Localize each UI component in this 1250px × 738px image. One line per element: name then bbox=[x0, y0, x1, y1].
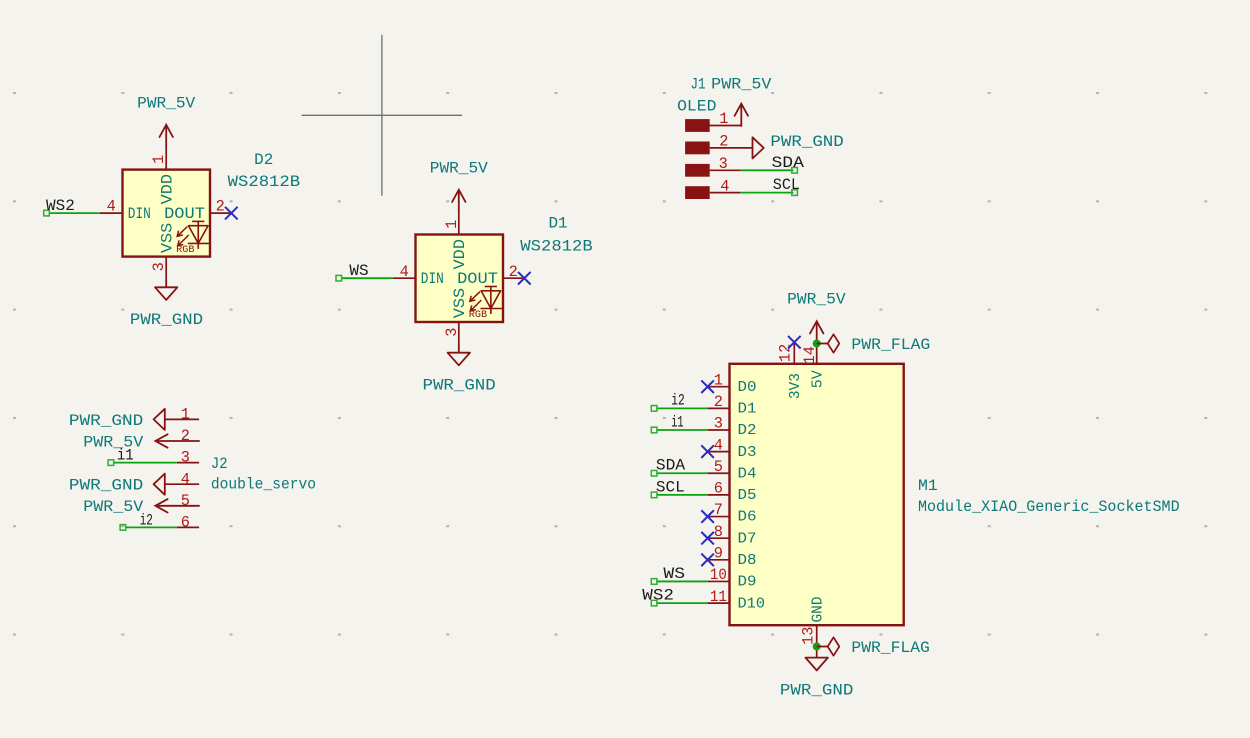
D2 LED vertical lead bbox=[197, 221, 199, 249]
svg-text:D7: D7 bbox=[738, 531, 757, 547]
no-connect at D2 DOUT bbox=[225, 207, 238, 220]
J1 pin 1 bbox=[710, 124, 742, 127]
J1 pad 3 bbox=[685, 164, 710, 177]
J1 pad 1 bbox=[685, 119, 710, 132]
D2 pin 2 (DOUT) bbox=[210, 212, 231, 214]
svg-text:6: 6 bbox=[181, 514, 190, 532]
svg-text:PWR_FLAG: PWR_FLAG bbox=[851, 639, 929, 657]
svg-text:RGB: RGB bbox=[176, 244, 194, 255]
svg-text:4: 4 bbox=[720, 177, 729, 195]
svg-text:8: 8 bbox=[714, 523, 723, 541]
power flag PWR_FLAG top bbox=[828, 334, 840, 352]
M1 pin 7 (D6) bbox=[708, 516, 730, 518]
wire end square (i2 at M1) bbox=[651, 406, 657, 412]
power PWR_5V at M1 bbox=[810, 321, 823, 343]
svg-text:DIN: DIN bbox=[128, 205, 151, 223]
no-connect at M1 pin 7 bbox=[701, 510, 714, 523]
svg-text:WS2: WS2 bbox=[642, 587, 674, 605]
wire end square (SCL at M1) bbox=[651, 492, 657, 498]
no-connect at M1 pin 12 bbox=[788, 336, 801, 349]
M1 pin 11 (D10) bbox=[708, 602, 730, 604]
junction at M1 5V pin bbox=[813, 340, 821, 348]
svg-text:Module_XIAO_Generic_SocketSMD: Module_XIAO_Generic_SocketSMD bbox=[918, 498, 1180, 516]
svg-text:4: 4 bbox=[714, 436, 723, 454]
svg-text:PWR_5V: PWR_5V bbox=[711, 76, 772, 94]
wire net SCL at M1 bbox=[657, 494, 708, 496]
wire end square (i2) bbox=[120, 525, 126, 531]
no-connect at M1 pin 9 bbox=[701, 554, 714, 567]
no-connect at M1 pin 1 bbox=[701, 380, 714, 393]
svg-text:WS: WS bbox=[663, 565, 685, 583]
svg-text:1: 1 bbox=[719, 110, 728, 128]
svg-text:RGB: RGB bbox=[469, 309, 487, 320]
D1 LED arrow 1 bbox=[470, 292, 480, 302]
svg-text:WS2812B: WS2812B bbox=[520, 237, 592, 255]
svg-text:PWR_GND: PWR_GND bbox=[69, 477, 143, 495]
module M1 body bbox=[730, 364, 904, 625]
svg-text:D8: D8 bbox=[738, 553, 757, 569]
wire net i1 at M1 bbox=[657, 429, 708, 431]
wire end square (SCL) bbox=[792, 190, 798, 196]
M1 pin 2 (D1) bbox=[708, 407, 730, 409]
J1 pin 3 bbox=[710, 169, 741, 171]
svg-text:i2: i2 bbox=[671, 392, 685, 410]
D1 pin 1 (VDD) bbox=[458, 212, 460, 235]
svg-text:2: 2 bbox=[714, 393, 723, 411]
no-connect at M1 pin 8 bbox=[701, 532, 714, 545]
svg-text:SCL: SCL bbox=[773, 176, 800, 194]
no-connect at D1 DOUT bbox=[518, 272, 531, 285]
wire net i1 at J2 bbox=[114, 462, 177, 464]
svg-text:i1: i1 bbox=[671, 413, 683, 431]
svg-text:PWR_5V: PWR_5V bbox=[83, 498, 144, 516]
power PWR_GND at J2 pin 4 (rotated) bbox=[154, 474, 165, 495]
svg-text:14: 14 bbox=[801, 346, 819, 364]
wire net WS2 to D2 DIN bbox=[49, 212, 100, 214]
svg-text:D2: D2 bbox=[254, 151, 273, 169]
D2 pin 1 (VDD) bbox=[165, 147, 167, 170]
svg-text:7: 7 bbox=[714, 501, 723, 519]
svg-text:WS: WS bbox=[349, 262, 368, 280]
M1 pin 9 (D8) bbox=[708, 559, 730, 561]
J2 pin 5 with power PWR_5V (rotated) bbox=[155, 499, 199, 512]
M1 pin 8 (D7) bbox=[708, 537, 730, 539]
J1 pin 4 bbox=[710, 192, 741, 194]
D2 LED anode tick bbox=[192, 220, 204, 222]
svg-text:3: 3 bbox=[714, 415, 723, 433]
J2 pin 6 bbox=[177, 526, 199, 528]
wire net WS at M1 bbox=[657, 580, 708, 582]
svg-text:VDD: VDD bbox=[451, 239, 469, 270]
D2 LED cathode bar bbox=[188, 242, 210, 244]
svg-text:2: 2 bbox=[719, 133, 728, 151]
cursor crosshair horizontal bbox=[302, 114, 462, 116]
power PWR_5V at D2 bbox=[160, 125, 173, 147]
svg-text:D3: D3 bbox=[738, 445, 757, 461]
svg-text:3: 3 bbox=[181, 449, 190, 467]
J2 pin 1 bbox=[165, 418, 199, 420]
D1 LED anode tick bbox=[485, 286, 497, 288]
D2 pin 4 (DIN) bbox=[100, 212, 123, 214]
cursor crosshair vertical bbox=[381, 35, 383, 196]
svg-text:10: 10 bbox=[710, 566, 727, 584]
J1 pad 2 bbox=[685, 142, 710, 155]
svg-text:4: 4 bbox=[181, 470, 190, 488]
junction at M1 GND pin bbox=[813, 643, 821, 651]
wire end square (i1) bbox=[108, 460, 114, 466]
svg-text:DOUT: DOUT bbox=[457, 270, 498, 288]
svg-text:PWR_GND: PWR_GND bbox=[780, 682, 854, 700]
wire net i2 at J2 bbox=[126, 526, 177, 528]
svg-text:D10: D10 bbox=[738, 596, 766, 612]
svg-text:double_servo: double_servo bbox=[211, 476, 316, 494]
wire end square (i1 at M1) bbox=[651, 427, 657, 433]
svg-text:2: 2 bbox=[216, 198, 225, 216]
svg-text:6: 6 bbox=[714, 480, 723, 498]
M1 pin 5 (D4) bbox=[708, 472, 730, 474]
svg-text:1: 1 bbox=[150, 155, 168, 164]
M1 pin 1 (D0) bbox=[708, 386, 730, 388]
D2 LED arrow 2 bbox=[178, 235, 189, 246]
wire end square (SDA) bbox=[792, 168, 798, 174]
svg-text:SDA: SDA bbox=[772, 154, 805, 172]
svg-text:OLED: OLED bbox=[677, 98, 716, 116]
svg-text:D0: D0 bbox=[738, 380, 757, 396]
svg-text:5: 5 bbox=[181, 492, 190, 510]
svg-text:PWR_GND: PWR_GND bbox=[770, 133, 843, 151]
svg-text:GND: GND bbox=[810, 596, 826, 622]
svg-text:M1: M1 bbox=[918, 477, 938, 495]
power flag PWR_FLAG bottom bbox=[828, 637, 840, 655]
M1 pin 13 (GND) bbox=[816, 625, 818, 657]
J1 pin 2 bbox=[710, 147, 753, 149]
D1 LED arrow 2 bbox=[470, 300, 481, 311]
svg-text:WS2: WS2 bbox=[46, 197, 75, 215]
svg-text:J1: J1 bbox=[691, 76, 706, 94]
svg-text:5V: 5V bbox=[811, 370, 827, 388]
svg-text:12: 12 bbox=[776, 344, 794, 362]
J2 pin 2 with power PWR_5V (rotated) bbox=[155, 434, 199, 447]
wire net i2 at M1 bbox=[657, 407, 708, 409]
svg-text:VSS: VSS bbox=[158, 223, 176, 253]
svg-text:VSS: VSS bbox=[451, 288, 469, 318]
J2 pin 3 bbox=[177, 462, 199, 464]
power PWR_GND at J1 (rotated) bbox=[753, 137, 764, 158]
svg-text:3: 3 bbox=[150, 262, 168, 271]
wire end square (WS) bbox=[336, 275, 342, 281]
M1 pin 10 (D9) bbox=[708, 580, 730, 582]
svg-text:D1: D1 bbox=[549, 215, 568, 233]
LED D2 WS2812B body bbox=[123, 170, 211, 257]
svg-text:D1: D1 bbox=[738, 402, 757, 418]
svg-text:2: 2 bbox=[509, 263, 518, 281]
svg-text:PWR_GND: PWR_GND bbox=[423, 377, 496, 395]
svg-text:PWR_5V: PWR_5V bbox=[83, 433, 144, 451]
no-connect at M1 pin 4 bbox=[701, 445, 714, 458]
power PWR_GND at D1 bbox=[448, 345, 470, 366]
wire net SDA at M1 bbox=[657, 472, 708, 474]
svg-text:i1: i1 bbox=[117, 447, 134, 465]
svg-text:1: 1 bbox=[443, 220, 461, 229]
svg-text:i2: i2 bbox=[140, 511, 153, 529]
svg-text:D5: D5 bbox=[738, 488, 757, 504]
M1 pin 6 (D5) bbox=[708, 494, 730, 496]
wire net SCL at J1 bbox=[740, 192, 793, 194]
D1 pin 4 (DIN) bbox=[393, 277, 416, 279]
svg-text:PWR_FLAG: PWR_FLAG bbox=[851, 336, 930, 354]
M1 pin 12 (3V3) bbox=[793, 342, 795, 364]
svg-text:11: 11 bbox=[710, 588, 727, 606]
svg-text:3V3: 3V3 bbox=[788, 373, 804, 399]
svg-text:1: 1 bbox=[181, 406, 190, 424]
svg-text:4: 4 bbox=[107, 198, 116, 216]
D1 LED vertical lead bbox=[490, 286, 492, 314]
M1 pin 4 (D3) bbox=[708, 451, 730, 453]
D1 pin 2 (DOUT) bbox=[503, 277, 524, 279]
J2 pin 4 bbox=[165, 483, 199, 485]
D1 LED triangle bbox=[481, 291, 501, 309]
wire net WS to D1 DIN bbox=[342, 277, 393, 279]
D2 LED arrow 1 bbox=[177, 227, 187, 237]
LED D1 WS2812B body bbox=[416, 235, 504, 323]
PWR_FLAG stub top bbox=[817, 343, 828, 345]
wire net WS2 at M1 bbox=[657, 602, 708, 604]
svg-text:WS2812B: WS2812B bbox=[228, 173, 300, 191]
svg-text:DOUT: DOUT bbox=[164, 205, 205, 223]
svg-text:D6: D6 bbox=[738, 510, 757, 526]
power PWR_GND at J2 pin 1 (rotated) bbox=[154, 409, 165, 430]
svg-text:5: 5 bbox=[714, 458, 723, 476]
svg-text:VDD: VDD bbox=[158, 174, 176, 205]
svg-text:PWR_GND: PWR_GND bbox=[69, 412, 143, 430]
svg-text:D9: D9 bbox=[738, 575, 757, 591]
svg-text:9: 9 bbox=[714, 545, 723, 563]
svg-text:SDA: SDA bbox=[656, 457, 686, 475]
svg-text:3: 3 bbox=[719, 155, 728, 173]
power PWR_5V at D1 bbox=[452, 190, 465, 212]
svg-text:4: 4 bbox=[400, 263, 409, 281]
D1 pin 3 (VSS) bbox=[458, 322, 460, 345]
power PWR_5V at J1 bbox=[735, 104, 748, 126]
svg-text:D2: D2 bbox=[738, 423, 757, 439]
J1 pad 4 bbox=[685, 186, 710, 199]
svg-text:2: 2 bbox=[181, 427, 190, 445]
svg-text:D4: D4 bbox=[738, 466, 757, 482]
wire end square (WS2 at M1) bbox=[651, 600, 657, 606]
D1 LED cathode bar bbox=[480, 308, 502, 310]
svg-text:3: 3 bbox=[443, 328, 461, 337]
svg-text:PWR_5V: PWR_5V bbox=[787, 291, 846, 309]
svg-text:SCL: SCL bbox=[656, 478, 685, 496]
svg-text:1: 1 bbox=[714, 371, 723, 389]
wire end square (WS2) bbox=[44, 210, 50, 216]
PWR_FLAG stub bottom bbox=[817, 646, 828, 648]
wire end square (WS at M1) bbox=[651, 579, 657, 585]
wire net SDA at J1 bbox=[740, 169, 793, 171]
power PWR_GND at M1 bbox=[806, 658, 828, 671]
svg-text:PWR_GND: PWR_GND bbox=[130, 311, 203, 329]
svg-text:PWR_5V: PWR_5V bbox=[137, 94, 196, 112]
M1 pin 14 (5V) bbox=[816, 344, 818, 364]
M1 pin 3 (D2) bbox=[708, 429, 730, 431]
D2 pin 3 (VSS) bbox=[165, 257, 167, 280]
svg-text:PWR_5V: PWR_5V bbox=[430, 159, 489, 177]
D2 LED triangle bbox=[189, 226, 209, 244]
svg-text:J2: J2 bbox=[211, 455, 228, 473]
svg-text:DIN: DIN bbox=[421, 270, 444, 288]
wire end square (SDA at M1) bbox=[651, 470, 657, 476]
power PWR_GND at D2 bbox=[155, 279, 177, 300]
svg-text:13: 13 bbox=[800, 627, 818, 645]
